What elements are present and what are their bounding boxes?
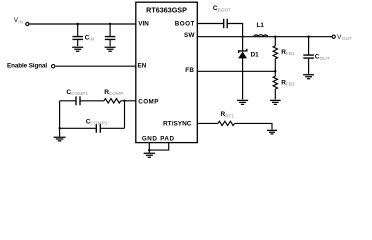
svg-text:COMP1: COMP1: [71, 91, 88, 96]
svg-text:IN: IN: [18, 19, 23, 24]
svg-text:FB2: FB2: [286, 81, 295, 86]
svg-text:IN: IN: [89, 37, 94, 42]
svg-text:EN: EN: [138, 63, 147, 70]
svg-text:FB1: FB1: [286, 51, 295, 56]
svg-text:D1: D1: [251, 52, 260, 59]
svg-text:Enable Signal: Enable Signal: [7, 63, 47, 70]
svg-text:COMP: COMP: [138, 98, 159, 105]
svg-text:SW: SW: [184, 32, 195, 39]
svg-text:L1: L1: [257, 22, 265, 29]
svg-text:RT/SYNC: RT/SYNC: [163, 121, 192, 128]
svg-text:RT6363GSP: RT6363GSP: [146, 5, 187, 14]
svg-text:GND: GND: [142, 135, 158, 142]
svg-text:BOOT: BOOT: [218, 7, 232, 12]
svg-text:RT1: RT1: [225, 113, 234, 118]
svg-text:BOOT: BOOT: [175, 20, 195, 27]
svg-text:COMP: COMP: [109, 91, 123, 96]
svg-text:VIN: VIN: [138, 20, 149, 27]
svg-text:FB: FB: [185, 67, 194, 74]
svg-text:OUT: OUT: [320, 56, 330, 61]
svg-text:COMP2: COMP2: [90, 121, 107, 126]
svg-text:OUT: OUT: [342, 36, 352, 41]
svg-text:PAD: PAD: [160, 136, 174, 143]
